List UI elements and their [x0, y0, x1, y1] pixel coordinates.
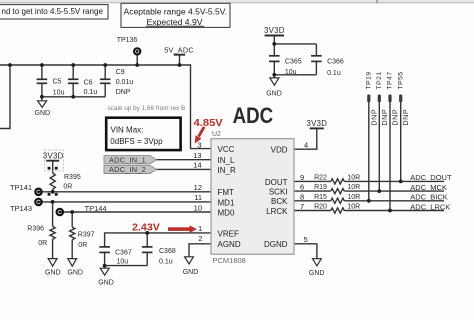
svg-text:R19: R19 — [314, 184, 327, 191]
svg-text:14: 14 — [193, 161, 201, 170]
svg-text:C365: C365 — [285, 59, 302, 66]
svg-text:7: 7 — [300, 202, 304, 211]
svg-text:2.43V: 2.43V — [132, 222, 160, 234]
svg-text:GND: GND — [35, 110, 51, 117]
svg-text:C5: C5 — [53, 79, 62, 86]
svg-text:GND: GND — [98, 280, 114, 287]
svg-text:IN_L: IN_L — [218, 156, 235, 165]
svg-text:3V3D: 3V3D — [264, 26, 285, 35]
svg-text:2: 2 — [198, 234, 202, 243]
svg-text:DNP: DNP — [116, 89, 131, 96]
svg-text:DNP: DNP — [369, 109, 378, 126]
svg-text:TP47: TP47 — [387, 71, 394, 89]
svg-text:BCK: BCK — [271, 197, 288, 206]
svg-text:VCC: VCC — [218, 145, 235, 154]
svg-text:10u: 10u — [53, 89, 65, 96]
svg-text:R15: R15 — [314, 194, 327, 201]
svg-text:MD0: MD0 — [218, 208, 235, 217]
svg-text:ADC_IN_2: ADC_IN_2 — [109, 165, 146, 174]
svg-text:R397: R397 — [78, 231, 95, 238]
svg-text:ADC_MCK: ADC_MCK — [410, 183, 447, 192]
svg-text:scale up by 1.66 from rev B: scale up by 1.66 from rev B — [108, 105, 186, 112]
svg-text:GND: GND — [45, 269, 61, 276]
svg-text:0R: 0R — [63, 184, 72, 191]
svg-text:10R: 10R — [347, 184, 360, 191]
svg-text:R396: R396 — [27, 225, 44, 232]
svg-text:11: 11 — [194, 193, 202, 202]
svg-text:10R: 10R — [347, 175, 360, 182]
svg-text:DNP: DNP — [380, 109, 389, 126]
svg-text:TP144: TP144 — [85, 204, 107, 213]
svg-text:4.85V: 4.85V — [194, 117, 223, 129]
svg-text:6: 6 — [300, 183, 304, 192]
svg-text:C367: C367 — [115, 249, 132, 256]
svg-text:10R: 10R — [347, 194, 360, 201]
svg-text:0.1u: 0.1u — [159, 258, 173, 265]
svg-text:nd to get into 4.5-5.5V range: nd to get into 4.5-5.5V range — [2, 7, 104, 16]
svg-text:5: 5 — [304, 235, 308, 244]
svg-text:8: 8 — [300, 192, 304, 201]
svg-text:DOUT: DOUT — [265, 178, 288, 187]
svg-text:0.1u: 0.1u — [327, 70, 341, 77]
svg-text:C6: C6 — [84, 80, 93, 87]
svg-text:12: 12 — [194, 183, 202, 192]
svg-text:TP141: TP141 — [10, 183, 32, 192]
svg-text:1: 1 — [198, 224, 202, 233]
svg-text:DNP: DNP — [391, 109, 400, 126]
svg-text:AGND: AGND — [218, 240, 241, 249]
svg-text:3: 3 — [197, 141, 201, 150]
svg-text:DNP: DNP — [401, 109, 410, 126]
svg-text:R395: R395 — [64, 174, 81, 181]
svg-text:GND: GND — [266, 91, 282, 98]
svg-text:ADC_IN_1: ADC_IN_1 — [109, 155, 146, 164]
svg-text:13: 13 — [193, 151, 201, 160]
svg-text:GND: GND — [67, 269, 83, 276]
svg-text:ADC: ADC — [233, 103, 274, 128]
svg-text:MD1: MD1 — [218, 198, 235, 207]
svg-text:FMT: FMT — [218, 188, 235, 197]
svg-text:ADC_DOUT: ADC_DOUT — [410, 173, 452, 182]
svg-text:VDD: VDD — [271, 146, 288, 155]
svg-text:TP143: TP143 — [10, 204, 32, 213]
svg-text:C366: C366 — [327, 59, 344, 66]
svg-text:10u: 10u — [117, 258, 129, 265]
svg-text:TP55: TP55 — [397, 71, 404, 89]
svg-text:3V3D: 3V3D — [43, 151, 64, 160]
svg-text:5V_ADC: 5V_ADC — [164, 45, 194, 54]
svg-text:0dBFS = 3Vpp: 0dBFS = 3Vpp — [110, 137, 163, 146]
svg-text:10: 10 — [194, 204, 202, 213]
svg-text:10u: 10u — [285, 69, 297, 76]
svg-text:VIN Max:: VIN Max: — [111, 125, 144, 134]
svg-text:GND: GND — [309, 270, 325, 277]
svg-text:R22: R22 — [314, 175, 327, 182]
svg-text:U2: U2 — [212, 131, 221, 138]
svg-text:DGND: DGND — [264, 240, 288, 249]
svg-text:C9: C9 — [116, 69, 125, 76]
svg-text:9: 9 — [300, 173, 304, 182]
svg-text:Aceptable range 4.5V-5.5V.: Aceptable range 4.5V-5.5V. — [124, 8, 228, 17]
svg-text:R20: R20 — [314, 204, 327, 211]
svg-text:0.01u: 0.01u — [116, 79, 134, 86]
svg-text:TP21: TP21 — [376, 71, 383, 89]
svg-text:0.1u: 0.1u — [84, 89, 98, 96]
svg-text:TP19: TP19 — [365, 71, 372, 89]
svg-text:Expected 4.9V: Expected 4.9V — [147, 18, 204, 27]
svg-text:3V3D: 3V3D — [306, 119, 327, 128]
svg-text:0R: 0R — [78, 242, 87, 249]
svg-text:IN_R: IN_R — [218, 166, 236, 175]
svg-text:LRCK: LRCK — [266, 207, 288, 216]
svg-text:GND: GND — [183, 269, 199, 276]
svg-text:ADC_BICK: ADC_BICK — [410, 193, 448, 202]
svg-text:SCKI: SCKI — [269, 188, 288, 197]
svg-text:0R: 0R — [38, 240, 47, 247]
svg-text:4: 4 — [304, 141, 308, 150]
svg-text:10R: 10R — [347, 204, 360, 211]
svg-text:C368: C368 — [159, 248, 176, 255]
svg-text:ADC_LRCK: ADC_LRCK — [410, 202, 450, 211]
svg-text:PCM1808: PCM1808 — [213, 256, 246, 265]
svg-text:VREF: VREF — [218, 229, 239, 238]
svg-text:TP136: TP136 — [117, 37, 138, 44]
